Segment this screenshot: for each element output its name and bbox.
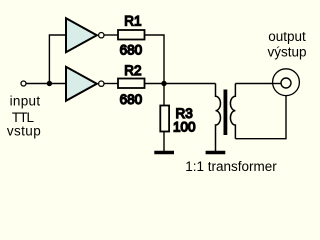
svg-text:input: input <box>10 93 41 108</box>
wire junction up to row 1 <box>49 35 65 84</box>
wire secondary top to output connector <box>235 83 281 85</box>
node input junction <box>47 81 52 86</box>
svg-text:output: output <box>268 29 306 44</box>
input terminal <box>21 81 26 86</box>
wire summing node to transformer primary <box>164 83 216 85</box>
svg-text:R2: R2 <box>124 63 141 78</box>
inverter U2 output bubble <box>99 81 104 86</box>
svg-text:výstup: výstup <box>267 44 306 59</box>
wire secondary bottom loop <box>235 96 286 139</box>
inverter U1 output bubble <box>99 33 104 38</box>
inverter U1 <box>66 18 97 52</box>
wire U1 bubble to R1 <box>104 34 118 36</box>
transformer core <box>224 90 228 136</box>
svg-text:100: 100 <box>173 120 196 135</box>
svg-text:680: 680 <box>120 92 143 107</box>
resistor R3 <box>160 106 169 132</box>
ground (R3) <box>154 151 174 154</box>
wire junction to inverter U2 input <box>49 83 65 85</box>
output connector inner circle <box>281 78 291 88</box>
svg-text:680: 680 <box>120 43 143 58</box>
wire R3 to ground <box>163 132 165 152</box>
svg-text:R1: R1 <box>124 13 141 28</box>
resistor R1 <box>118 30 145 40</box>
wire U2 bubble to R2 <box>104 83 118 85</box>
transformer T1 primary winding <box>216 84 221 152</box>
wire into inner pin <box>272 83 280 85</box>
wire input terminal to junction <box>27 83 50 85</box>
transformer T1 secondary winding <box>230 84 235 139</box>
svg-text:vstup: vstup <box>7 123 41 138</box>
wire R1 to bus corner <box>145 35 165 81</box>
output connector outer circle <box>273 69 300 96</box>
wire summing node down to R3 <box>163 84 165 106</box>
node summing junction <box>161 81 166 86</box>
svg-text:1:1 transformer: 1:1 transformer <box>185 159 277 174</box>
resistor R2 <box>118 79 145 89</box>
wire R2 to summing node <box>145 83 165 85</box>
ground (transformer primary) <box>206 151 226 154</box>
inverter U2 <box>66 67 97 101</box>
